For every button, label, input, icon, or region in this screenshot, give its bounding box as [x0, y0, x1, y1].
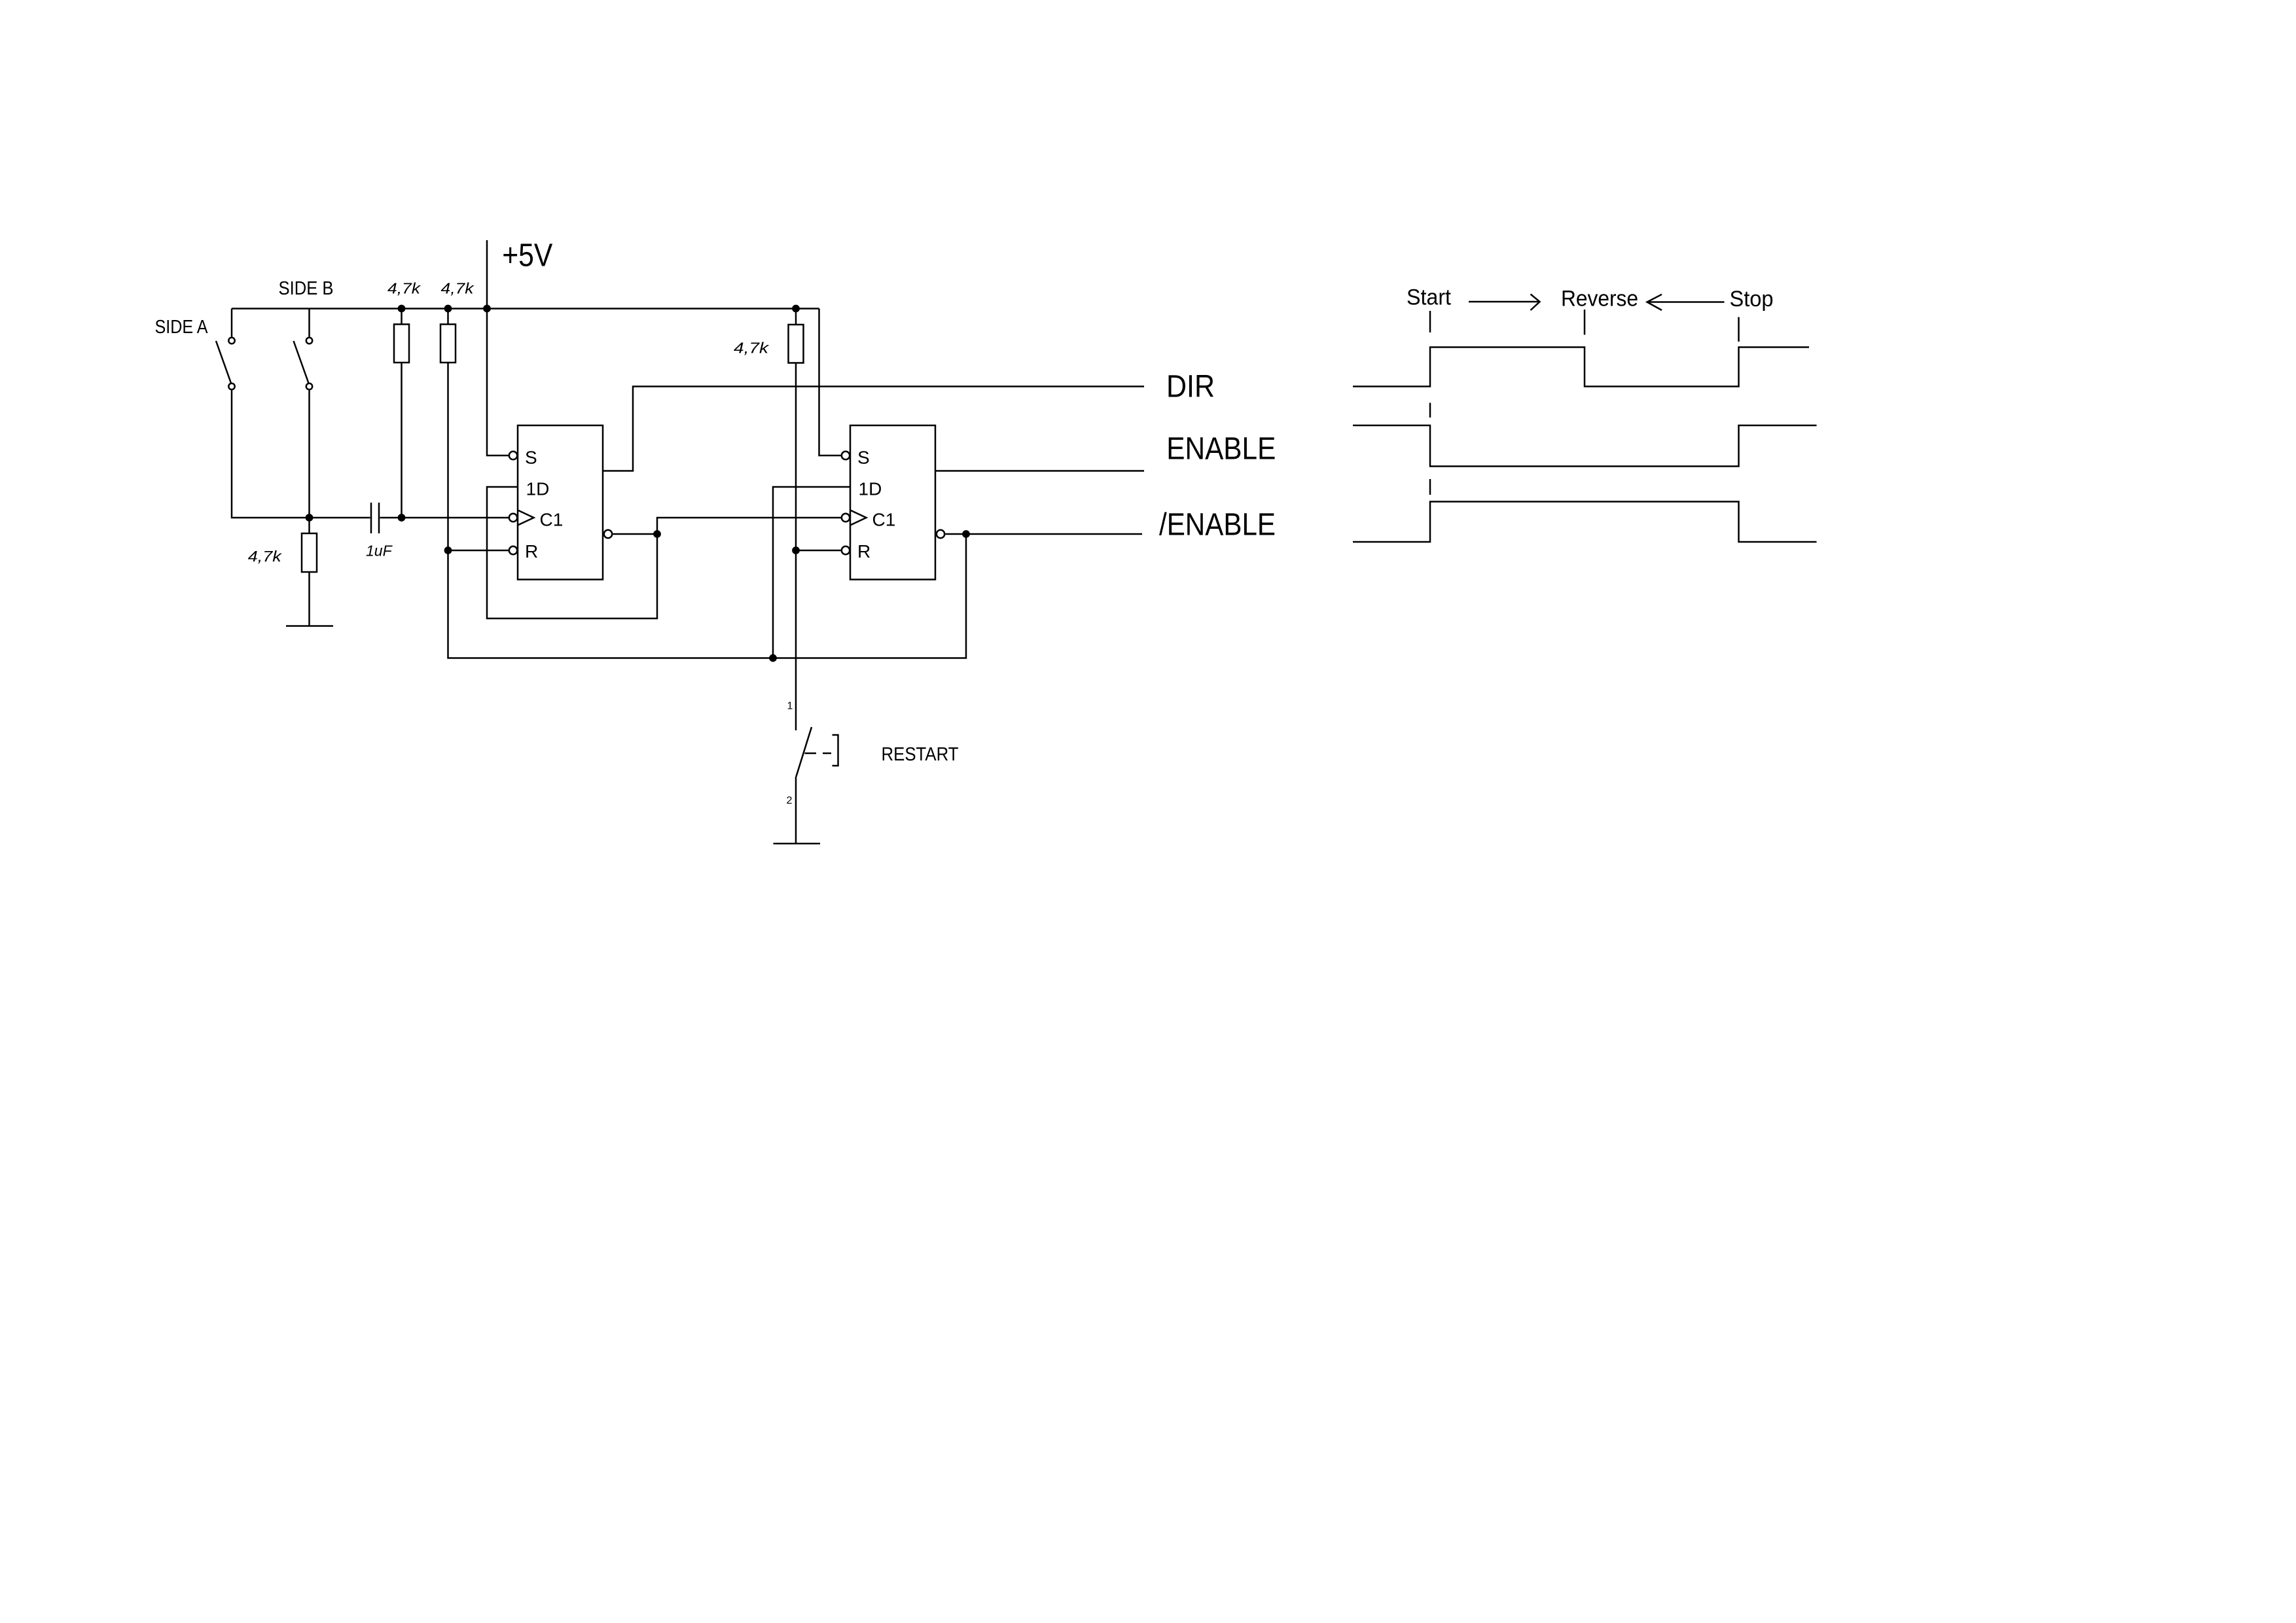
- resistor R4 4,7k body: [789, 325, 804, 363]
- node dot FF1 R junction: [444, 546, 452, 554]
- resistor R3 4,7k pulldown top lead: [308, 518, 310, 533]
- capacitor C right wire: [380, 517, 402, 519]
- flip-flop U1 body: [518, 425, 603, 580]
- wire SIDE A switch to node: [232, 391, 310, 518]
- resistor R2 bottom lead down to feedback line: [448, 363, 967, 658]
- switch RESTART button bracket: [833, 735, 838, 766]
- resistor R3 bottom lead: [308, 572, 310, 626]
- op U1 Qbar bubble: [604, 530, 612, 538]
- svg-text:Stop: Stop: [1730, 287, 1774, 312]
- svg-text:RESTART: RESTART: [882, 744, 959, 765]
- wire FF1 1D input and feedback loop: [487, 487, 657, 618]
- node dot bus R2: [444, 305, 452, 313]
- arrow Stop to Reverse head: [1647, 294, 1662, 310]
- timing dashed tick Reverse: [1584, 310, 1586, 335]
- node dot FF2 1D junction: [769, 654, 777, 662]
- svg-text:1D: 1D: [859, 479, 882, 499]
- svg-text:4,7k: 4,7k: [441, 280, 475, 297]
- resistor R2 4,7k body: [440, 325, 456, 363]
- svg-text:SIDE A: SIDE A: [155, 317, 209, 338]
- node dot FF1 Qbar junction: [653, 530, 661, 538]
- waveform ENABLE: [1353, 425, 1817, 467]
- switch SIDE B lever arm: [294, 341, 309, 383]
- resistor R1 bottom lead: [401, 363, 403, 518]
- wire FF1 out riser to FF2 C1: [657, 518, 841, 534]
- wire top +5V bus: [232, 308, 819, 310]
- svg-text:2: 2: [787, 795, 793, 806]
- node dot cap R1 junction: [398, 514, 406, 522]
- switch SIDE B top contact: [306, 338, 312, 344]
- wire FF2 1D input and drop to feedback line: [773, 487, 850, 658]
- resistor R3 4,7k body: [302, 533, 317, 572]
- svg-text:+5V: +5V: [502, 238, 552, 274]
- svg-text:4,7k: 4,7k: [387, 280, 422, 297]
- flip-flop U2 body: [850, 425, 935, 580]
- svg-text:1D: 1D: [526, 479, 550, 499]
- ground GND1: [286, 625, 333, 627]
- arrow Start to Reverse shaft: [1469, 301, 1540, 303]
- svg-text:4,7k: 4,7k: [248, 548, 283, 565]
- wire /ENABLE line: [966, 533, 1142, 535]
- resistor R4 4,7k top lead: [795, 309, 797, 325]
- waveform /ENABLE: [1353, 502, 1817, 543]
- wire FF1 Q output to DIR line: [603, 387, 1144, 471]
- wire SIDE B switch to node: [308, 391, 310, 518]
- op U2 S bubble: [842, 452, 850, 459]
- op U2 R bubble: [842, 546, 850, 554]
- svg-text:/ENABLE: /ENABLE: [1159, 508, 1276, 543]
- timing dashed tick Start lower: [1429, 479, 1431, 495]
- resistor R4 bottom lead down to RESTART: [795, 363, 797, 731]
- arrow Stop to Reverse shaft: [1647, 301, 1725, 303]
- svg-text:ENABLE: ENABLE: [1166, 432, 1276, 467]
- switch RESTART actuator dash 1: [805, 753, 817, 755]
- svg-text:C1: C1: [540, 510, 564, 530]
- resistor R1 4,7k top lead: [401, 309, 403, 325]
- wire SIDE B switch drop from bus: [308, 309, 310, 337]
- ground GND2: [774, 843, 821, 845]
- node dot FF2 Qbar junction: [962, 530, 970, 538]
- switch SIDE B bottom contact: [306, 383, 312, 389]
- svg-text:4,7k: 4,7k: [734, 339, 770, 356]
- wire FF2 Qbar to node: [946, 533, 967, 535]
- wire bus right corner down to FF2 S: [819, 309, 842, 456]
- node dot switches junction: [306, 514, 314, 522]
- svg-text:1: 1: [787, 701, 793, 712]
- switch RESTART lever arm: [796, 727, 812, 777]
- op U1 C1 bubble: [509, 514, 517, 522]
- wire +5V rail to FF1 S input: [487, 240, 509, 455]
- wire FF2 Q ENABLE line: [935, 470, 1144, 472]
- svg-text:1uF: 1uF: [366, 542, 393, 559]
- node dot bus R1: [398, 305, 406, 313]
- wire FF1 Qbar to node: [613, 533, 658, 535]
- capacitor C left wire: [310, 517, 370, 519]
- op U2 C1 bubble: [842, 514, 850, 522]
- timing dashed tick Stop: [1738, 317, 1740, 342]
- node dot bus R4: [792, 305, 800, 313]
- svg-text:R: R: [857, 541, 870, 562]
- wire RESTART bottom lead: [795, 777, 797, 844]
- wire SIDE A switch drop from bus: [231, 309, 233, 337]
- switch RESTART actuator dash 2: [823, 753, 831, 755]
- timing dashed tick Start upper: [1429, 311, 1431, 332]
- svg-text:C1: C1: [872, 510, 896, 530]
- capacitor C left plate: [370, 503, 372, 533]
- switch SIDE A lever arm: [216, 341, 231, 383]
- node dot FF2 R junction: [792, 546, 800, 554]
- svg-text:Reverse: Reverse: [1561, 287, 1638, 312]
- op U2 clock triangle: [850, 510, 867, 526]
- resistor R2 4,7k top lead: [447, 309, 449, 325]
- switch SIDE A bottom contact: [228, 383, 234, 389]
- resistor R1 4,7k body: [394, 325, 409, 363]
- svg-text:S: S: [525, 447, 537, 467]
- svg-text:S: S: [857, 447, 870, 467]
- svg-text:Start: Start: [1407, 285, 1452, 310]
- arrow Start to Reverse head: [1531, 294, 1540, 311]
- timing dashed tick Start mid: [1429, 403, 1431, 418]
- wire FF2 R input: [796, 550, 841, 552]
- wire FF1 R input: [448, 550, 509, 552]
- node dot bus +5V: [483, 305, 491, 313]
- svg-text:DIR: DIR: [1166, 370, 1215, 404]
- svg-text:SIDE B: SIDE B: [279, 278, 334, 299]
- op U1 clock triangle: [518, 510, 534, 526]
- svg-text:R: R: [525, 541, 538, 562]
- switch SIDE A top contact: [228, 338, 234, 344]
- waveform DIR: [1353, 348, 1809, 387]
- wire node to FF1 C1: [402, 517, 509, 519]
- op U1 S bubble: [509, 452, 517, 459]
- capacitor C right plate: [378, 503, 380, 533]
- op U1 R bubble: [509, 546, 517, 554]
- op U2 Qbar bubble: [937, 530, 944, 538]
